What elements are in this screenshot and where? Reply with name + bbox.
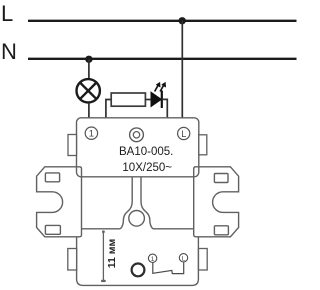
svg-text:L: L <box>182 255 186 262</box>
svg-text:1: 1 <box>151 256 155 263</box>
wire N line <box>28 58 297 60</box>
svg-text:11 мм: 11 мм <box>106 238 118 268</box>
resistor R1 <box>111 93 145 106</box>
junction dot on N line <box>85 56 92 63</box>
lamp E1 <box>77 79 100 102</box>
svg-text:L: L <box>1 1 13 26</box>
switch contact pin 1 <box>148 254 156 263</box>
terminal circle 1 <box>85 127 97 140</box>
rocker stem <box>120 177 152 228</box>
screw head top <box>130 128 144 142</box>
svg-text:BA10-005.: BA10-005. <box>119 146 173 158</box>
bottom housing body <box>77 237 199 286</box>
switch contact pin L <box>179 254 187 263</box>
wire lamp to terminal 1 <box>88 103 90 118</box>
svg-text:L: L <box>181 129 186 139</box>
wire L junction down to terminal L <box>181 21 183 118</box>
svg-text:10X/250~: 10X/250~ <box>122 162 172 174</box>
bottom housing right tab <box>199 249 208 271</box>
switch body upper right tab <box>199 135 207 155</box>
LED emission arrows <box>155 82 166 91</box>
switch body upper housing <box>77 118 199 177</box>
mounting claw right <box>194 167 239 237</box>
junction dot on L line <box>179 17 186 24</box>
screw head bottom <box>132 264 145 277</box>
svg-text:1: 1 <box>89 129 94 140</box>
wire LED branch left lead <box>106 100 112 118</box>
wire N junction to lamp <box>88 59 90 79</box>
svg-text:N: N <box>1 39 17 64</box>
wire LED to device <box>162 99 168 117</box>
wire resistor to LED <box>145 99 151 101</box>
terminal circle L <box>178 127 190 139</box>
bottom housing top edge <box>82 228 194 230</box>
mounting claw left <box>37 167 82 237</box>
LED D1 <box>151 91 162 109</box>
switch body upper left tab <box>68 135 77 156</box>
dimension needle 11 mm <box>101 230 106 282</box>
bottom housing left tab <box>68 249 77 271</box>
wire L line <box>28 20 297 22</box>
switch contact lever <box>153 262 184 274</box>
rocker pivot boss <box>129 211 145 227</box>
